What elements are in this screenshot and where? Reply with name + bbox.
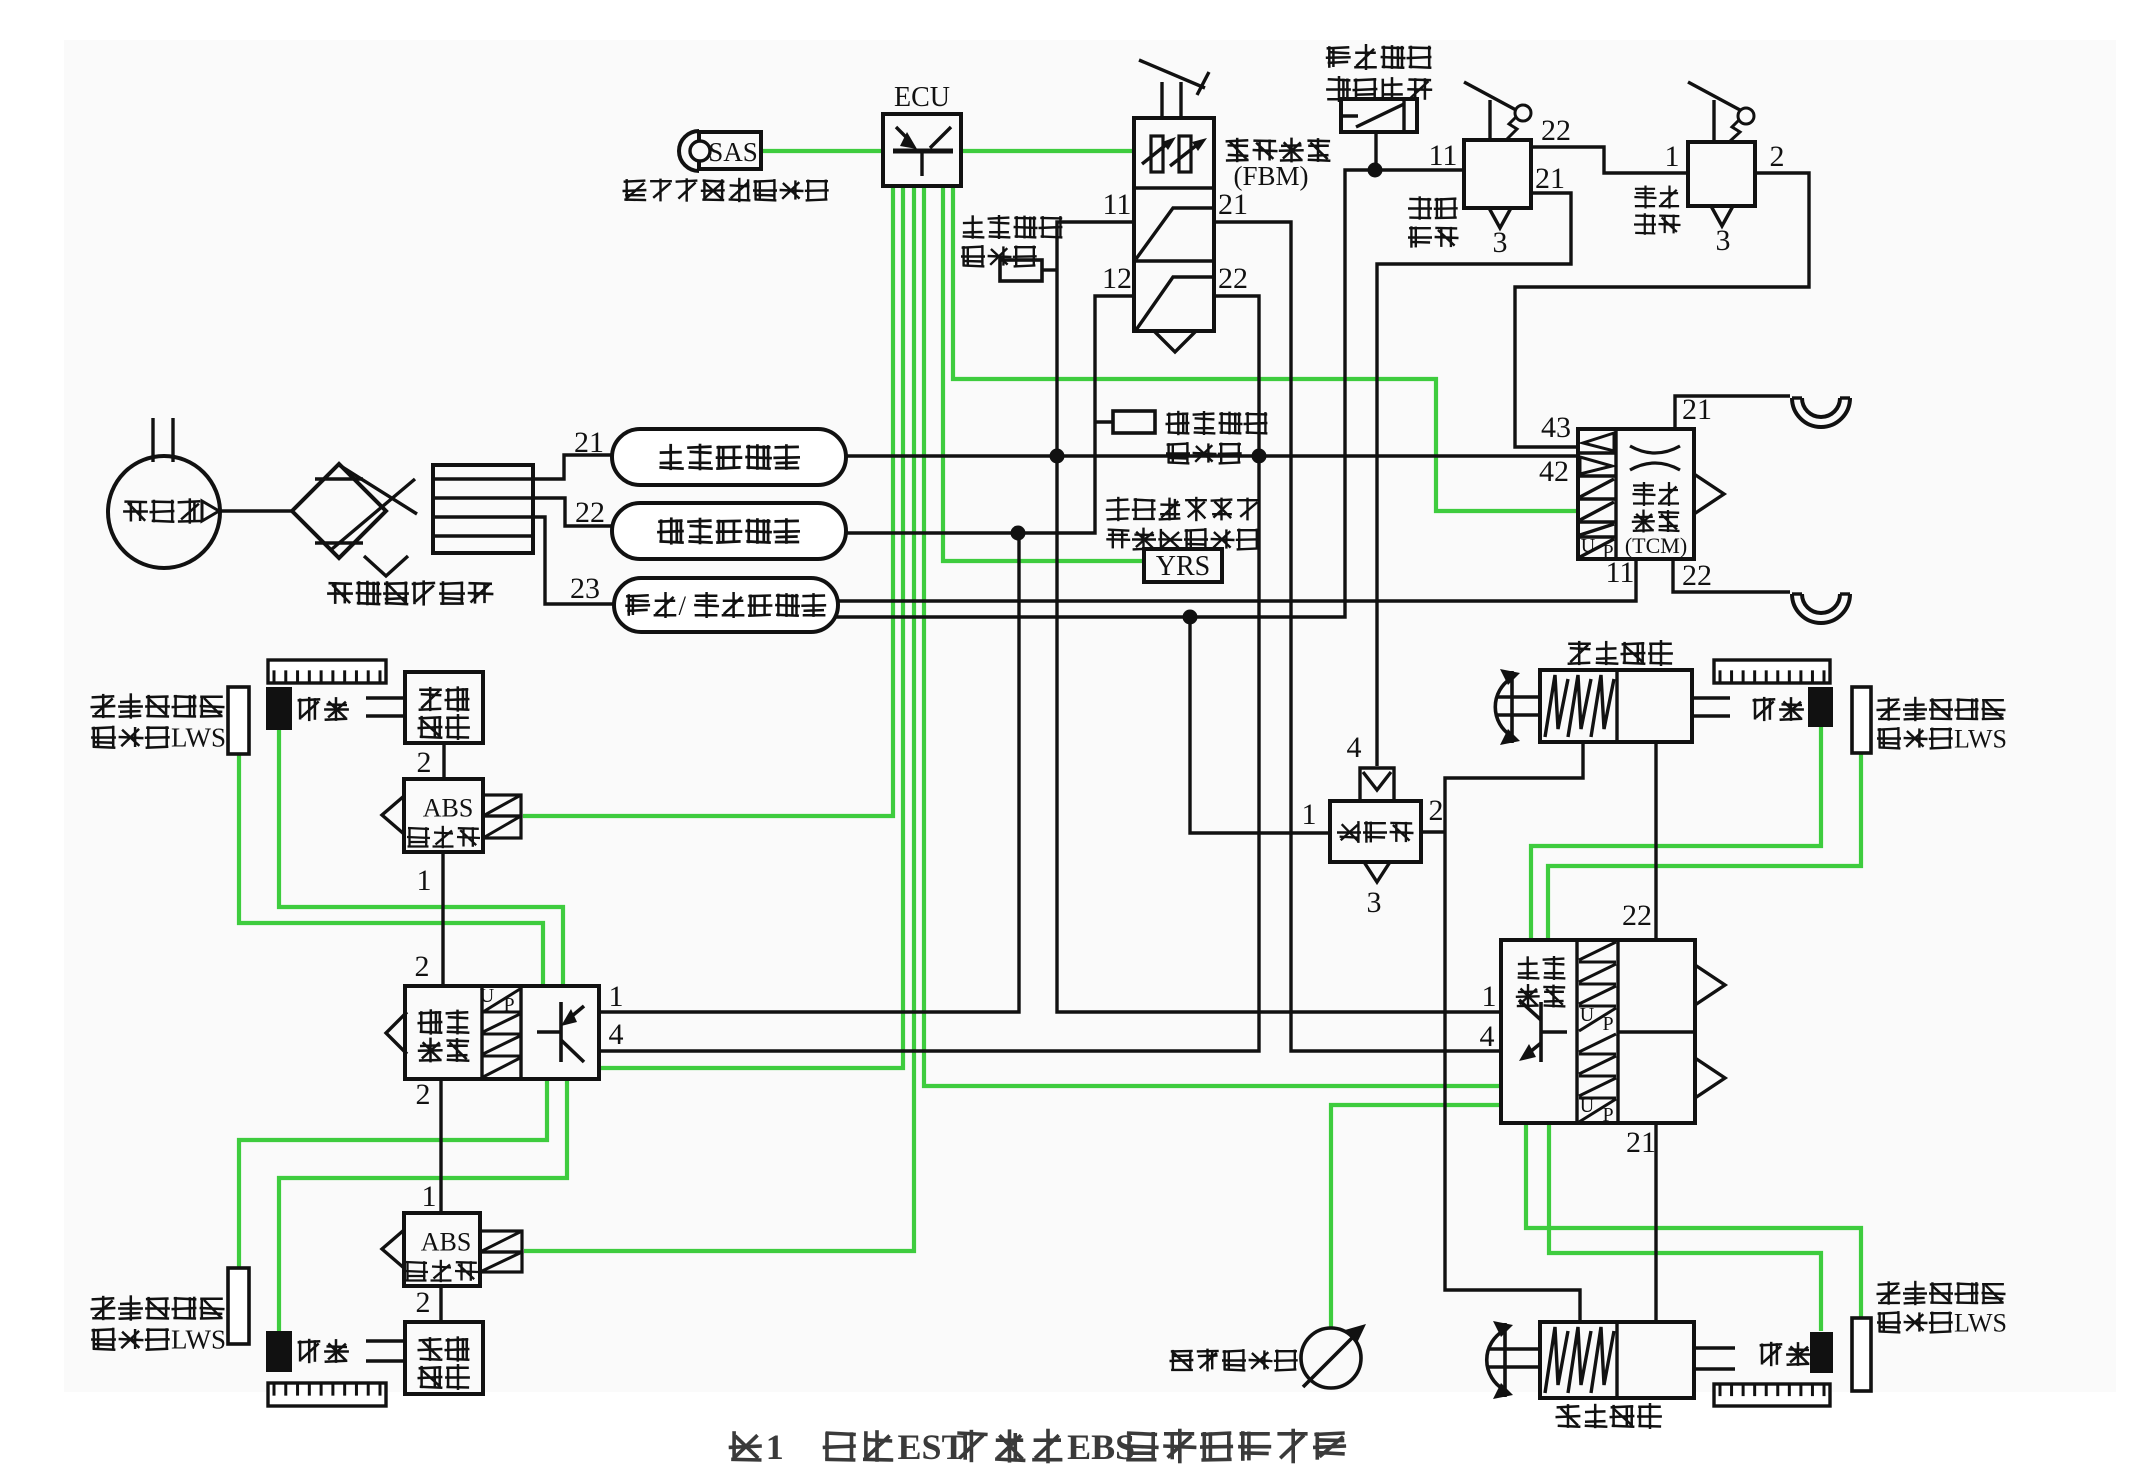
FBM exhaust bbox=[1154, 331, 1196, 352]
wire rear reservoir branch FBM port 11 and rear module port 1 bbox=[1057, 222, 1501, 1012]
wire green bottom-left LWS to front module bbox=[239, 1079, 547, 1268]
foot brake valve module FBM bbox=[1134, 118, 1214, 331]
wire parking reservoir to hand brake valve port 11 bbox=[836, 170, 1463, 617]
wire rear module port 21 to left rear cylinder bbox=[1654, 1123, 1657, 1322]
svg-text:4: 4 bbox=[1480, 1020, 1495, 1053]
wire green ECU-4 to rear axle module bbox=[924, 186, 1501, 1086]
svg-text:LWS: LWS bbox=[1954, 724, 2007, 753]
hand brake valve bbox=[1464, 140, 1531, 208]
wire front reservoir branch to front module port 1 bbox=[599, 533, 1019, 1012]
svg-text:YRS: YRS bbox=[1156, 551, 1210, 582]
svg-text:1: 1 bbox=[1482, 980, 1497, 1013]
svg-text:EBS: EBS bbox=[1067, 1427, 1135, 1467]
wire green axle load sensor to rear module bbox=[1331, 1105, 1501, 1328]
junction node warning switch / hand valve 11 bbox=[1368, 163, 1383, 178]
svg-text:1: 1 bbox=[766, 1427, 784, 1467]
junction node parking line to relay valve bbox=[1183, 610, 1198, 625]
svg-text:1: 1 bbox=[1665, 140, 1680, 173]
svg-text:(FBM): (FBM) bbox=[1233, 161, 1308, 191]
parking pressure warning switch bbox=[1341, 99, 1417, 132]
wire parking pressure warning switch stub bbox=[1374, 132, 1377, 170]
tooth wheel top-left bbox=[268, 660, 386, 683]
svg-text:11: 11 bbox=[1606, 556, 1635, 589]
trailer coupling top bbox=[1792, 398, 1850, 427]
wire green front-left wheel speed to front module bbox=[279, 730, 563, 986]
svg-text:2: 2 bbox=[416, 1286, 431, 1319]
wire compressor intake pipes bbox=[151, 418, 154, 462]
wire green front-left LWS to front module bbox=[239, 754, 543, 986]
ECU bbox=[883, 114, 961, 186]
svg-text:1: 1 bbox=[1302, 798, 1317, 831]
svg-text:42: 42 bbox=[1539, 455, 1569, 488]
wire green rear module to top-right LWS bbox=[1548, 753, 1861, 940]
ABS solenoid valve 1 bbox=[404, 779, 483, 852]
wire relay valve port 2 to right rear cylinder bbox=[1445, 742, 1583, 1322]
wire green rear module to bottom-right LWS bbox=[1526, 1123, 1861, 1318]
right rear brake cylinder bbox=[1540, 670, 1692, 742]
trailer module TCM bbox=[1578, 429, 1694, 559]
wheel speed sensor bottom-right bbox=[1810, 1332, 1833, 1373]
wire green rear module to top-right wheel speed bbox=[1531, 727, 1821, 940]
rear axle module bbox=[1501, 940, 1695, 1123]
svg-text:2: 2 bbox=[415, 950, 430, 983]
wire hand brake valve port 22 to trailer hand valve port 1 bbox=[1531, 147, 1688, 173]
svg-text:22: 22 bbox=[1682, 559, 1712, 592]
wire ABS solenoid 1 port 1 to front module bbox=[441, 852, 444, 986]
rear axle reservoir bbox=[612, 429, 846, 485]
wire air unit to front reservoir port 22 bbox=[533, 498, 612, 526]
LWS sensor bottom-right bbox=[1852, 1318, 1871, 1391]
trailer coupling bottom bbox=[1792, 594, 1850, 623]
svg-text:21: 21 bbox=[1535, 162, 1565, 195]
svg-text:(TCM): (TCM) bbox=[1625, 533, 1687, 558]
wire right front cylinder to ABS solenoid 1 port 2 bbox=[442, 743, 445, 779]
junction node front reservoir branch bbox=[1011, 526, 1026, 541]
tooth wheel bottom-right bbox=[1714, 1384, 1830, 1406]
wire right rear cylinder to rear module port 22 bbox=[1654, 742, 1657, 940]
svg-text:4: 4 bbox=[609, 1018, 624, 1051]
right front brake cylinder bbox=[405, 672, 483, 743]
wire trailer hand valve port 2 to TCM port 43 bbox=[1515, 173, 1809, 447]
left front brake cylinder bbox=[405, 1322, 483, 1394]
svg-text:3: 3 bbox=[1367, 886, 1382, 919]
wire green ECU-1 to ABS solenoid 1 bbox=[523, 186, 893, 816]
svg-text:21: 21 bbox=[1218, 188, 1248, 221]
svg-text:22: 22 bbox=[1622, 899, 1652, 932]
svg-text:21: 21 bbox=[1626, 1126, 1656, 1159]
wire wheel speed stubs bottom-right bbox=[1694, 1346, 1735, 1349]
wheel speed sensor bottom-left bbox=[266, 1331, 292, 1372]
wire green ECU-5 to YRS sensor bbox=[943, 186, 1144, 561]
LWS sensor bottom-left bbox=[228, 1268, 249, 1344]
svg-text:11: 11 bbox=[1429, 139, 1458, 172]
LWS sensor top-right bbox=[1852, 687, 1871, 753]
left rear brake cylinder bbox=[1540, 1322, 1694, 1398]
svg-text:3: 3 bbox=[1493, 226, 1508, 259]
wire front module port 2 to ABS solenoid 2 port 1 bbox=[439, 1079, 442, 1213]
svg-text:2: 2 bbox=[417, 746, 432, 779]
svg-text:EST: EST bbox=[898, 1427, 966, 1467]
wire green ECU-3 to ABS solenoid 2 bbox=[524, 186, 914, 1251]
LWS sensor top-left bbox=[228, 687, 249, 754]
wire green rear module to bottom-right wheel speed bbox=[1549, 1123, 1821, 1331]
svg-text:1: 1 bbox=[417, 864, 432, 897]
wire wheel speed stubs top-right bbox=[1692, 696, 1730, 699]
front axle reservoir bbox=[612, 503, 846, 559]
svg-text:LWS: LWS bbox=[171, 1325, 226, 1355]
front axle pressure sensor bbox=[1113, 411, 1155, 433]
rear axle pressure sensor bbox=[1000, 260, 1042, 281]
wire air unit to rear reservoir port 21 bbox=[533, 455, 612, 479]
wire FBM port 21 to rear module port 4 bbox=[1214, 222, 1501, 1051]
wire hand brake valve port 21 to relay valve port 4 bbox=[1377, 193, 1571, 766]
svg-text:22: 22 bbox=[1218, 262, 1248, 295]
wire rear reservoir supply line to TCM port 42 bbox=[846, 454, 1578, 457]
svg-text:23: 23 bbox=[570, 572, 600, 605]
svg-text:22: 22 bbox=[1541, 114, 1571, 147]
svg-text:SAS: SAS bbox=[708, 137, 758, 167]
wire green ECU to FBM bbox=[961, 149, 1134, 153]
front axle module bbox=[405, 986, 599, 1079]
wire TCM port 21 to trailer coupling top bbox=[1675, 396, 1790, 429]
wire air unit to parking reservoir port 23 bbox=[533, 517, 614, 604]
svg-text:4: 4 bbox=[1347, 731, 1362, 764]
yaw rate sensor YRS bbox=[1144, 549, 1222, 582]
parking/trailer reservoir bbox=[614, 578, 838, 632]
SAS steering angle sensor bbox=[679, 131, 699, 171]
figure title bbox=[729, 1429, 1346, 1464]
wire TCM port 22 to trailer coupling bottom bbox=[1673, 559, 1790, 592]
svg-text:21: 21 bbox=[574, 426, 604, 459]
relay valve bbox=[1330, 801, 1421, 862]
svg-text:LWS: LWS bbox=[171, 723, 226, 753]
svg-text:ABS: ABS bbox=[423, 793, 474, 822]
axle load sensor bbox=[1301, 1328, 1361, 1388]
wire green ECU-2 to front axle module bbox=[599, 186, 903, 1068]
svg-text:22: 22 bbox=[575, 496, 605, 529]
svg-text:2: 2 bbox=[1429, 794, 1444, 827]
wire parking reservoir to TCM port 11 bbox=[838, 559, 1636, 601]
wire ABS solenoid 2 port 2 to left front cylinder bbox=[439, 1286, 442, 1322]
svg-text:1: 1 bbox=[422, 1180, 437, 1213]
ABS solenoid valve 2 bbox=[404, 1213, 480, 1286]
svg-text:/: / bbox=[678, 591, 686, 621]
junction node FBM22 / TCM42 line bbox=[1252, 449, 1267, 464]
svg-text:1: 1 bbox=[609, 980, 624, 1013]
wheel speed sensor top-right bbox=[1808, 687, 1833, 727]
svg-text:ABS: ABS bbox=[421, 1227, 472, 1256]
svg-text:21: 21 bbox=[1682, 393, 1712, 426]
svg-text:12: 12 bbox=[1102, 262, 1132, 295]
svg-text:2: 2 bbox=[416, 1078, 431, 1111]
svg-text:2: 2 bbox=[1770, 140, 1785, 173]
wire green bottom-left wheel speed to front module bbox=[279, 1079, 567, 1331]
air processing unit bbox=[292, 464, 386, 558]
wire wheel speed stubs top-left bbox=[366, 696, 405, 699]
tooth wheel bottom-left bbox=[268, 1383, 386, 1406]
tooth wheel top-right bbox=[1714, 660, 1830, 683]
svg-text:ECU: ECU bbox=[894, 82, 950, 113]
wire green ECU-6 to trailer module TCM bbox=[953, 186, 1578, 511]
svg-text:43: 43 bbox=[1541, 411, 1571, 444]
wire FBM port 22 to front module port 4 bbox=[599, 296, 1259, 1051]
trailer hand valve bbox=[1688, 142, 1755, 206]
wire front reservoir line to FBM port 12 bbox=[846, 296, 1134, 533]
svg-text:3: 3 bbox=[1716, 224, 1731, 257]
svg-text:U: U bbox=[480, 985, 495, 1007]
air compressor bbox=[108, 456, 220, 568]
svg-text:11: 11 bbox=[1103, 188, 1132, 221]
wire wheel speed stubs bottom-left bbox=[366, 1339, 405, 1342]
wire compressor to air unit bbox=[219, 509, 292, 512]
svg-text:LWS: LWS bbox=[1954, 1308, 2007, 1337]
wheel speed sensor top-left bbox=[266, 687, 292, 730]
wire branch to relay valve port 1 bbox=[1190, 617, 1330, 833]
wire relay valve port 2 stub bbox=[1421, 830, 1445, 833]
wire green SAS to ECU bbox=[762, 149, 883, 153]
junction node rear reservoir / FBM11 bbox=[1050, 449, 1065, 464]
